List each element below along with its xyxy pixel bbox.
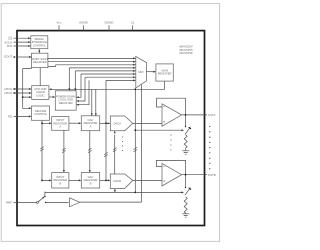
svg-text:SCLK: SCLK (4, 40, 12, 44)
svg-text:DOUT: DOUT (4, 55, 12, 59)
svg-text:REF: REF (6, 201, 12, 205)
svg-text:OUTA: OUTA (208, 113, 216, 117)
svg-text:UPO2: UPO2 (4, 91, 12, 95)
svg-text:MAX5156: MAX5156 (179, 51, 193, 55)
svg-text:DIN: DIN (7, 44, 12, 48)
svg-text:MUX: MUX (138, 71, 144, 74)
svg-text:DGND: DGND (105, 20, 115, 24)
svg-text:CL: CL (131, 20, 135, 24)
svg-text:AGND: AGND (79, 20, 89, 24)
svg-text:OUTB: OUTB (208, 173, 216, 177)
svg-text:UPO1: UPO1 (4, 87, 12, 91)
